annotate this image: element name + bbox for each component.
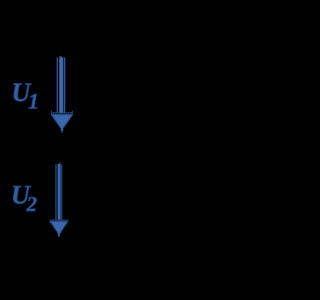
arrow U1 head base line [51,112,73,113]
arrow U2 apex tail [58,234,60,236]
arrow U2 top cap dash [59,163,61,164]
arrow U1 shaft right outline [64,57,66,112]
voltage arrow U1 [51,56,73,133]
arrow U1 apex tail [61,129,63,132]
arrow U2 head triangle [50,222,67,235]
arrow U2 shaft center fill [58,164,61,220]
arrow U1 head triangle [52,115,73,130]
label U1 [12,78,40,114]
svg-text:2: 2 [26,192,38,216]
arrow U1 shaft center fill [59,57,63,112]
arrow U1 top cap dash [59,55,62,58]
svg-text:1: 1 [28,89,39,114]
arrow U2 shaft left outline [55,164,56,219]
label U2 [11,180,38,216]
arrow U2 head base line [50,219,69,222]
arrow U1 shaft left outline [57,57,58,112]
voltage arrow U2 [50,163,69,238]
arrow U2 shaft right outline [61,164,62,219]
